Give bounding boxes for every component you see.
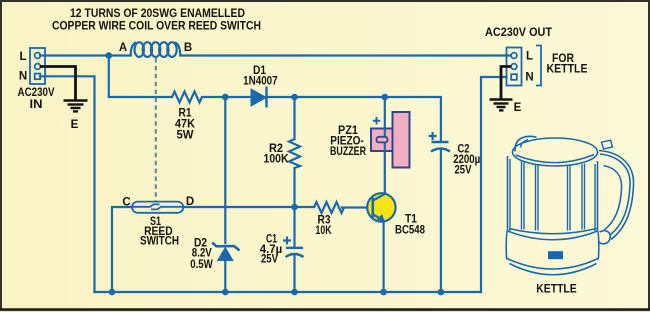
svg-text:L: L — [526, 51, 533, 63]
svg-text:N: N — [525, 72, 533, 84]
junction: R1/D1/D2 node — [222, 94, 229, 101]
svg-text:KETTLE: KETTLE — [536, 284, 577, 296]
wire: D2 column top — [224, 97, 226, 243]
kettle spout tab — [602, 140, 613, 149]
wire: reed D to R2 node and R3 — [183, 206, 314, 208]
junction: C1 on rail — [291, 289, 298, 296]
capacitor C1 4.7u 25V — [286, 248, 304, 257]
svg-text:SWITCH: SWITCH — [140, 236, 179, 248]
kettle rim — [513, 138, 598, 166]
junction: R2/R3/reed node — [291, 204, 298, 211]
kettle base — [506, 231, 599, 260]
svg-text:8.2V: 8.2V — [192, 248, 212, 260]
svg-text:KETTLE: KETTLE — [547, 64, 588, 76]
svg-text:D: D — [186, 196, 194, 208]
svg-text:COPPER WIRE COIL OVER REED SWI: COPPER WIRE COIL OVER REED SWITCH — [52, 21, 261, 33]
svg-text:C: C — [122, 197, 130, 209]
inductor coil L1 (12 turns over reed switch) — [131, 42, 181, 57]
resistor R2 100K — [289, 139, 300, 168]
wire: buzzer column (collector feed) — [384, 97, 386, 196]
svg-text:E: E — [514, 102, 522, 114]
svg-text:A: A — [119, 42, 127, 54]
junction: emitter on rail — [380, 289, 387, 296]
kettle handle hook — [599, 231, 611, 244]
resistor R3 10K — [314, 202, 344, 213]
junction: C2 on rail — [438, 289, 445, 296]
wire: live top rail from AC230V IN L to coil A — [40, 54, 131, 56]
piezo buzzer PZ1 — [371, 112, 410, 168]
svg-text:B: B — [184, 42, 192, 54]
svg-text:25V: 25V — [261, 254, 278, 266]
wire: D2 anode to bottom rail — [224, 261, 226, 292]
buzzer plus sign — [373, 117, 380, 125]
earth wire from AC230V IN — [40, 67, 76, 100]
svg-text:25V: 25V — [455, 165, 472, 177]
wire: C2 bottom to rail — [440, 150, 442, 292]
svg-text:L: L — [19, 51, 26, 63]
svg-text:AC230V OUT: AC230V OUT — [485, 27, 552, 39]
svg-text:N: N — [19, 71, 27, 83]
junction: buzzer node — [382, 94, 389, 101]
wire: live top rail from coil B to AC230V OUT L — [180, 54, 511, 56]
wire: T1 emitter to bottom rail — [383, 220, 385, 292]
svg-text:12 TURNS OF 20SWG ENAMELLED: 12 TURNS OF 20SWG ENAMELLED — [70, 8, 245, 20]
wire: AC230V OUT neutral return — [481, 77, 507, 292]
svg-text:1N4007: 1N4007 — [243, 76, 278, 88]
svg-text:AC230V: AC230V — [18, 87, 55, 99]
ground symbol E (right) — [490, 100, 513, 111]
resistor R1 47K 5W — [172, 92, 202, 103]
junction node A — [106, 52, 113, 59]
wire: R3 to T1 base — [342, 206, 372, 208]
junction: D1/R2 node — [291, 94, 298, 101]
bracket FOR KETTLE — [536, 46, 541, 86]
kettle glass panel lines — [521, 162, 523, 230]
svg-text:100K: 100K — [264, 154, 290, 166]
wire: R1 to D1 — [202, 96, 251, 98]
wire: R2 node to buzzer node to C2 corner — [295, 97, 441, 141]
svg-text:0.5W: 0.5W — [190, 259, 213, 271]
earth wire from AC230V OUT — [501, 67, 511, 99]
wire: R2 bottom to reed row node — [293, 168, 295, 207]
dashed coil-to-reed alignment line — [155, 58, 157, 201]
svg-text:BC548: BC548 — [395, 225, 425, 237]
wire: neutral column from AC230V IN N — [40, 76, 95, 292]
junction: D2 on rail — [222, 289, 229, 296]
kettle drawing — [506, 136, 633, 274]
C1 plus sign — [283, 237, 291, 245]
ground symbol E (left) — [64, 101, 88, 112]
diode D1 1N4007 — [251, 87, 267, 108]
kettle body/base joint — [509, 229, 597, 234]
capacitor C2 2200u 25V — [431, 142, 450, 152]
wire: C1 column — [293, 207, 295, 247]
kettle lid flap — [515, 136, 537, 151]
reed switch S1 — [132, 202, 183, 213]
svg-text:BUZZER: BUZZER — [330, 146, 367, 158]
svg-text:10K: 10K — [316, 225, 333, 237]
C2 plus sign — [429, 132, 437, 140]
kettle handle — [599, 151, 634, 240]
connector AC230V OUT — [507, 48, 522, 86]
svg-text:IN: IN — [30, 99, 43, 111]
wire: C1 to bottom rail — [293, 256, 295, 292]
junction: reed leg on rail — [109, 289, 116, 296]
kettle switch (filled) — [548, 251, 563, 259]
wire: R2 top stub — [293, 97, 295, 139]
wire: node A drop to R1 row — [109, 56, 172, 98]
kettle body walls — [507, 156, 509, 231]
zener diode D2 8.2V 0.5W — [212, 243, 239, 262]
svg-text:5W: 5W — [177, 130, 194, 142]
wire: bottom ground rail — [95, 291, 482, 293]
wire: reed switch left leg — [112, 207, 132, 292]
connector AC230V IN — [30, 48, 45, 84]
wire: D1 cathode to R2 node — [267, 96, 295, 98]
svg-text:E: E — [71, 119, 79, 131]
transistor T1 BC548 — [367, 193, 395, 221]
